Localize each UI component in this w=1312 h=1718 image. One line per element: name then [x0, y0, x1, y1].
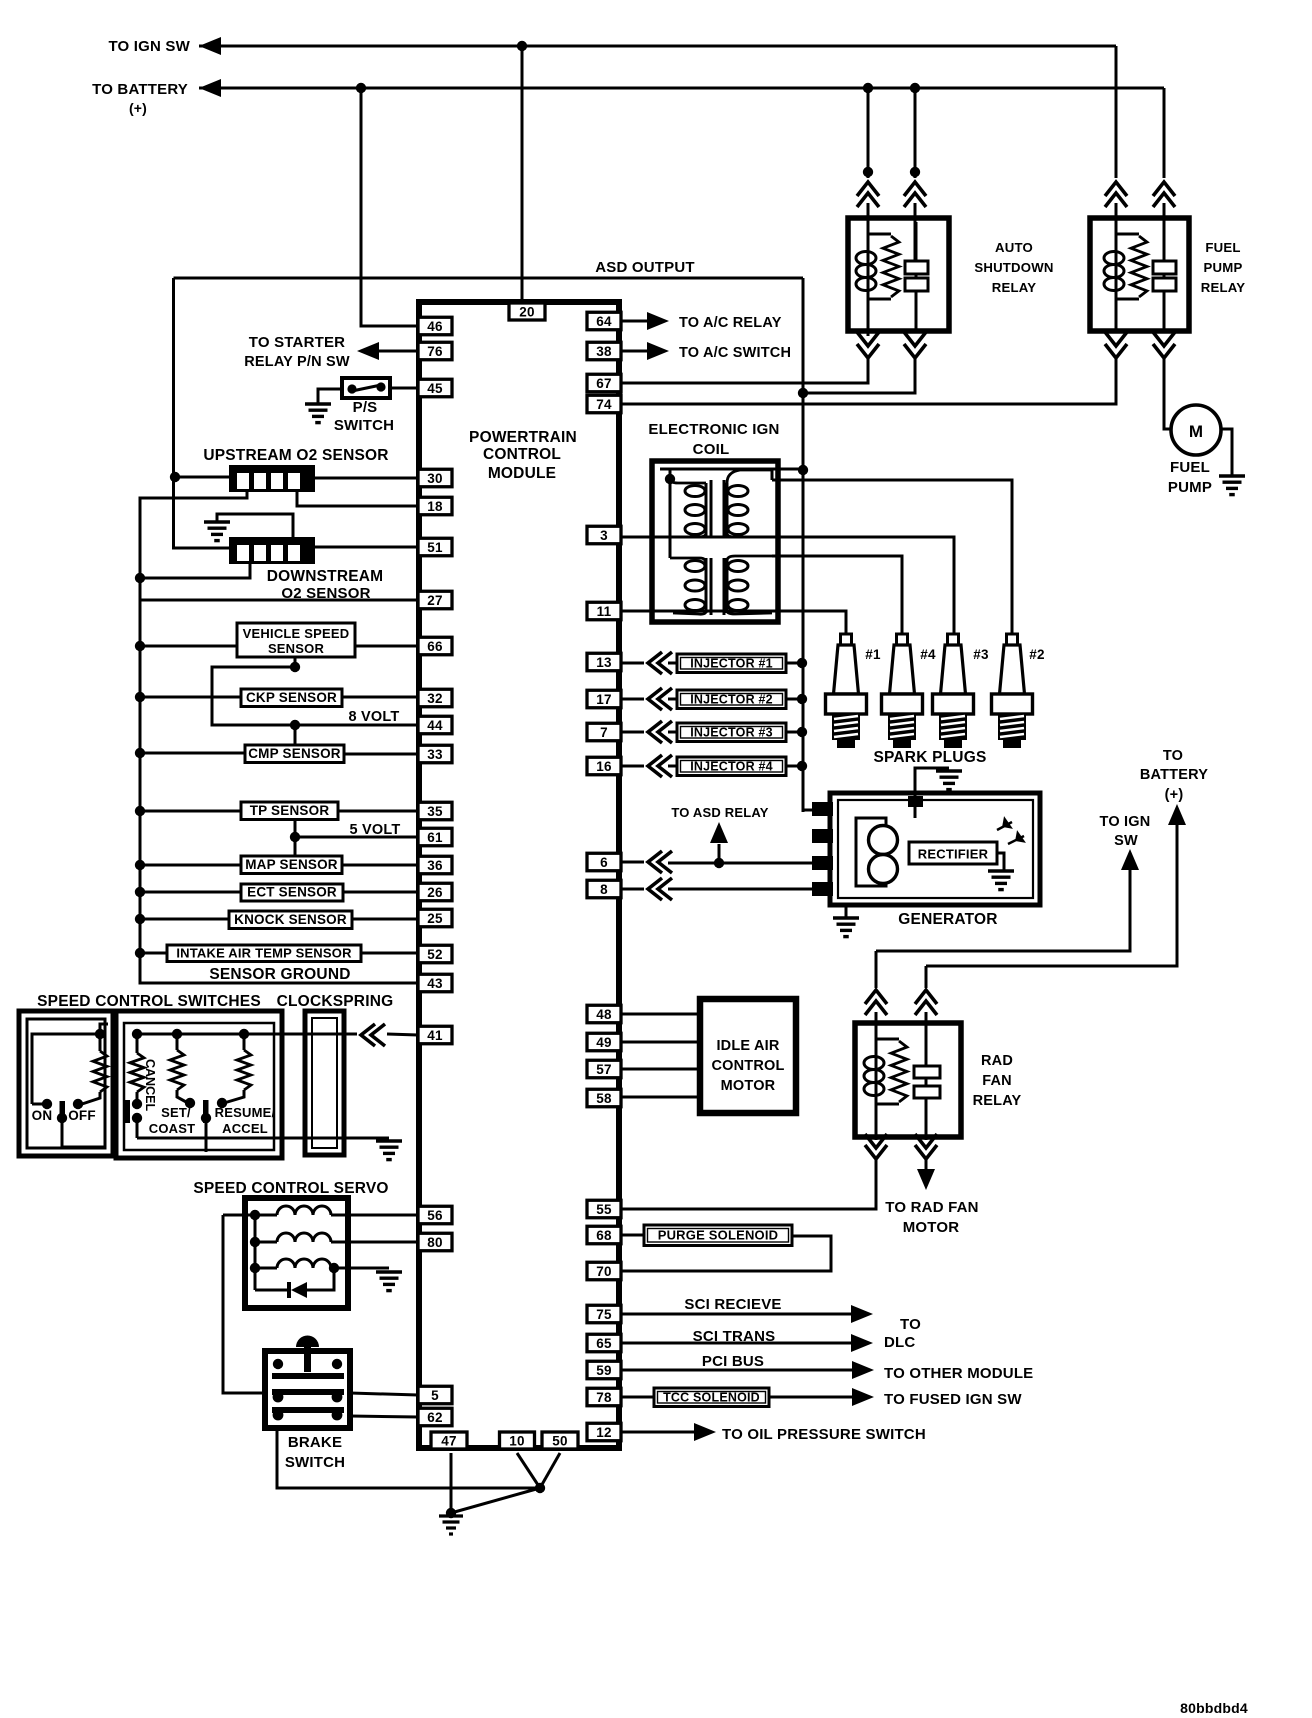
svg-text:80bbdbd4: 80bbdbd4: [1180, 1700, 1248, 1716]
svg-text:POWERTRAIN: POWERTRAIN: [469, 429, 577, 446]
svg-text:25: 25: [427, 911, 443, 926]
svg-text:80: 80: [427, 1235, 442, 1250]
svg-text:65: 65: [596, 1336, 612, 1351]
svg-text:74: 74: [596, 397, 612, 412]
svg-text:TO STARTER: TO STARTER: [249, 334, 345, 351]
svg-text:SCI TRANS: SCI TRANS: [693, 1328, 776, 1345]
svg-text:18: 18: [427, 499, 443, 514]
svg-text:62: 62: [427, 1410, 442, 1425]
svg-text:FAN: FAN: [982, 1073, 1012, 1089]
svg-text:TO: TO: [1163, 748, 1183, 764]
svg-text:(+): (+): [1165, 787, 1184, 803]
svg-text:47: 47: [441, 1433, 456, 1448]
svg-text:CANCEL: CANCEL: [143, 1059, 157, 1111]
svg-text:51: 51: [427, 540, 443, 555]
svg-text:5: 5: [431, 1388, 439, 1403]
svg-text:(+): (+): [129, 100, 147, 116]
svg-text:3: 3: [600, 528, 608, 543]
svg-text:BRAKE: BRAKE: [288, 1434, 342, 1451]
svg-text:11: 11: [597, 604, 612, 619]
svg-text:67: 67: [596, 376, 611, 391]
svg-text:SPEED CONTROL SWITCHES: SPEED CONTROL SWITCHES: [37, 993, 261, 1010]
svg-text:SW: SW: [1114, 833, 1138, 849]
svg-text:CONTROL: CONTROL: [711, 1058, 784, 1074]
svg-text:CLOCKSPRING: CLOCKSPRING: [277, 993, 394, 1010]
svg-text:49: 49: [596, 1035, 611, 1050]
svg-text:BATTERY: BATTERY: [1140, 767, 1208, 783]
svg-text:43: 43: [427, 976, 443, 991]
svg-text:RAD: RAD: [981, 1053, 1013, 1069]
svg-text:20: 20: [519, 304, 534, 319]
svg-text:PUMP: PUMP: [1204, 260, 1243, 275]
svg-text:56: 56: [427, 1208, 443, 1223]
svg-text:36: 36: [427, 858, 443, 873]
svg-text:8: 8: [600, 882, 608, 897]
svg-text:INJECTOR #4: INJECTOR #4: [690, 759, 773, 773]
svg-text:TO RAD FAN: TO RAD FAN: [885, 1199, 978, 1216]
svg-text:PCI BUS: PCI BUS: [702, 1353, 764, 1370]
svg-text:KNOCK SENSOR: KNOCK SENSOR: [234, 912, 347, 927]
svg-text:RESUME/: RESUME/: [215, 1105, 276, 1120]
svg-text:64: 64: [596, 314, 612, 329]
svg-text:MODULE: MODULE: [488, 465, 556, 482]
svg-text:SWITCH: SWITCH: [285, 1454, 345, 1471]
svg-text:#3: #3: [973, 647, 989, 662]
svg-text:48: 48: [596, 1007, 612, 1022]
svg-text:50: 50: [552, 1433, 567, 1448]
svg-text:TP SENSOR: TP SENSOR: [250, 803, 330, 818]
svg-text:CMP SENSOR: CMP SENSOR: [248, 746, 341, 761]
svg-text:TO OIL PRESSURE SWITCH: TO OIL PRESSURE SWITCH: [722, 1426, 926, 1443]
svg-text:17: 17: [596, 692, 611, 707]
svg-text:75: 75: [596, 1307, 612, 1322]
svg-text:COAST: COAST: [149, 1121, 196, 1136]
svg-text:46: 46: [427, 319, 443, 334]
svg-text:SHUTDOWN: SHUTDOWN: [974, 260, 1053, 275]
svg-text:TO: TO: [900, 1316, 921, 1333]
svg-text:INTAKE AIR TEMP SENSOR: INTAKE AIR TEMP SENSOR: [176, 945, 352, 960]
svg-text:TO ASD RELAY: TO ASD RELAY: [671, 805, 768, 820]
svg-text:70: 70: [596, 1264, 611, 1279]
svg-text:78: 78: [596, 1390, 612, 1405]
svg-text:TO A/C RELAY: TO A/C RELAY: [679, 315, 782, 331]
svg-text:M: M: [1189, 422, 1203, 441]
svg-text:UPSTREAM O2 SENSOR: UPSTREAM O2 SENSOR: [203, 447, 388, 464]
svg-text:57: 57: [596, 1062, 611, 1077]
svg-text:TO OTHER MODULE: TO OTHER MODULE: [884, 1365, 1033, 1382]
svg-text:CKP SENSOR: CKP SENSOR: [246, 690, 337, 705]
svg-text:66: 66: [427, 639, 443, 654]
svg-text:PUMP: PUMP: [1168, 479, 1212, 496]
svg-text:IDLE AIR: IDLE AIR: [716, 1038, 779, 1054]
svg-text:INJECTOR #1: INJECTOR #1: [690, 656, 773, 670]
svg-text:SPEED CONTROL SERVO: SPEED CONTROL SERVO: [193, 1180, 388, 1197]
svg-text:35: 35: [427, 804, 443, 819]
svg-text:#2: #2: [1029, 647, 1044, 662]
svg-text:38: 38: [596, 344, 612, 359]
svg-text:32: 32: [427, 691, 442, 706]
svg-text:45: 45: [427, 381, 443, 396]
svg-text:SWITCH: SWITCH: [334, 417, 394, 434]
svg-text:10: 10: [509, 1433, 524, 1448]
svg-text:#4: #4: [920, 647, 936, 662]
svg-text:5 VOLT: 5 VOLT: [350, 822, 401, 838]
svg-text:SET/: SET/: [161, 1105, 191, 1120]
svg-text:ON: ON: [32, 1108, 53, 1123]
svg-text:52: 52: [427, 947, 442, 962]
svg-text:6: 6: [600, 855, 608, 870]
svg-text:P/S: P/S: [353, 399, 378, 416]
svg-text:MOTOR: MOTOR: [721, 1078, 776, 1094]
svg-text:ECT SENSOR: ECT SENSOR: [247, 885, 337, 900]
svg-text:61: 61: [427, 830, 443, 845]
svg-text:SCI RECIEVE: SCI RECIEVE: [684, 1296, 781, 1313]
svg-text:30: 30: [427, 471, 442, 486]
svg-text:RELAY: RELAY: [992, 280, 1036, 295]
svg-text:DOWNSTREAM: DOWNSTREAM: [267, 568, 384, 585]
svg-text:INJECTOR #2: INJECTOR #2: [690, 692, 773, 706]
svg-text:VEHICLE SPEED: VEHICLE SPEED: [243, 626, 350, 641]
svg-text:INJECTOR #3: INJECTOR #3: [690, 725, 773, 739]
svg-text:26: 26: [427, 885, 443, 900]
svg-text:TO IGN: TO IGN: [1100, 814, 1151, 830]
svg-text:8 VOLT: 8 VOLT: [349, 709, 400, 725]
svg-text:SENSOR GROUND: SENSOR GROUND: [209, 966, 350, 983]
svg-text:ELECTRONIC IGN: ELECTRONIC IGN: [648, 421, 779, 438]
svg-text:TO IGN SW: TO IGN SW: [108, 38, 190, 55]
svg-text:#1: #1: [865, 647, 881, 662]
svg-text:MOTOR: MOTOR: [903, 1219, 960, 1236]
svg-text:DLC: DLC: [884, 1334, 915, 1351]
svg-text:41: 41: [427, 1028, 443, 1043]
svg-text:PURGE SOLENOID: PURGE SOLENOID: [658, 1227, 779, 1242]
svg-text:O2 SENSOR: O2 SENSOR: [281, 585, 370, 602]
svg-text:CONTROL: CONTROL: [483, 446, 561, 463]
svg-text:59: 59: [596, 1363, 611, 1378]
svg-text:12: 12: [596, 1425, 611, 1440]
svg-text:ACCEL: ACCEL: [222, 1121, 268, 1136]
svg-text:TO A/C SWITCH: TO A/C SWITCH: [679, 345, 791, 361]
svg-text:FUEL: FUEL: [1205, 240, 1240, 255]
svg-text:FUEL: FUEL: [1170, 459, 1210, 476]
svg-text:RECTIFIER: RECTIFIER: [918, 847, 989, 862]
svg-text:16: 16: [596, 759, 612, 774]
svg-text:RELAY: RELAY: [973, 1093, 1022, 1109]
svg-text:SENSOR: SENSOR: [268, 641, 325, 656]
svg-text:MAP SENSOR: MAP SENSOR: [245, 857, 338, 872]
svg-text:RELAY P/N SW: RELAY P/N SW: [244, 354, 350, 370]
svg-text:13: 13: [596, 655, 612, 670]
svg-text:44: 44: [427, 718, 443, 733]
svg-text:SPARK PLUGS: SPARK PLUGS: [873, 749, 986, 766]
svg-text:58: 58: [596, 1091, 612, 1106]
svg-text:TO FUSED IGN SW: TO FUSED IGN SW: [884, 1391, 1022, 1408]
svg-text:COIL: COIL: [693, 441, 730, 458]
svg-text:AUTO: AUTO: [995, 240, 1033, 255]
svg-text:55: 55: [596, 1202, 612, 1217]
svg-text:76: 76: [427, 344, 443, 359]
svg-text:33: 33: [427, 747, 443, 762]
svg-text:27: 27: [427, 593, 442, 608]
svg-text:TO BATTERY: TO BATTERY: [92, 81, 188, 98]
svg-text:7: 7: [600, 725, 608, 740]
svg-text:OFF: OFF: [68, 1108, 96, 1123]
svg-text:TCC SOLENOID: TCC SOLENOID: [663, 1390, 760, 1404]
svg-text:GENERATOR: GENERATOR: [898, 911, 997, 928]
svg-text:68: 68: [596, 1228, 612, 1243]
svg-text:RELAY: RELAY: [1201, 280, 1245, 295]
svg-text:ASD OUTPUT: ASD OUTPUT: [595, 259, 695, 276]
